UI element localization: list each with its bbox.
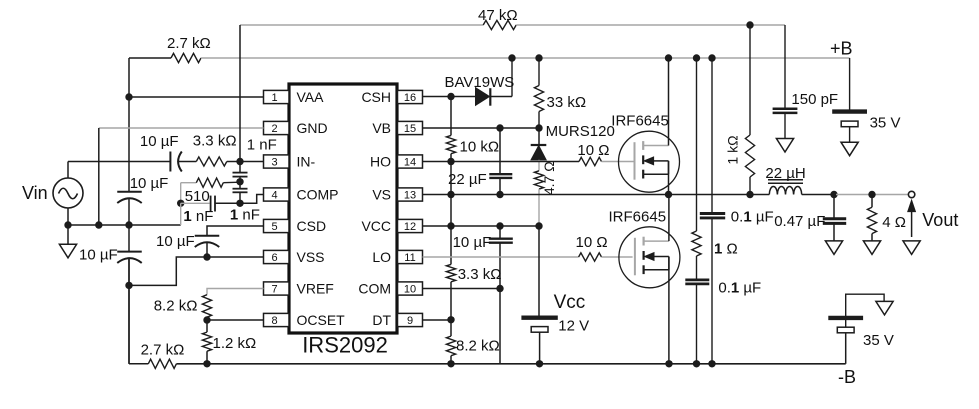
svg-text:11: 11: [404, 252, 415, 264]
svg-text:10 Ω: 10 Ω: [576, 234, 608, 251]
svg-text:35 V: 35 V: [863, 332, 894, 349]
svg-text:3.3 kΩ: 3.3 kΩ: [458, 266, 502, 283]
svg-text:9: 9: [407, 315, 413, 327]
svg-text:CSD: CSD: [297, 218, 327, 234]
svg-text:VCC: VCC: [361, 218, 391, 234]
svg-text:12: 12: [404, 221, 416, 233]
svg-text:IN-: IN-: [297, 154, 316, 170]
svg-text:4.7 Ω: 4.7 Ω: [541, 161, 557, 195]
svg-text:3.3 kΩ: 3.3 kΩ: [193, 132, 237, 149]
svg-text:7: 7: [271, 284, 277, 296]
svg-text:MURS120: MURS120: [546, 123, 615, 140]
svg-text:510: 510: [185, 188, 210, 205]
svg-text:8.2 kΩ: 8.2 kΩ: [456, 338, 500, 355]
svg-text:47 kΩ: 47 kΩ: [478, 7, 518, 24]
svg-text:6: 6: [271, 252, 277, 264]
svg-text:OCSET: OCSET: [297, 312, 346, 328]
svg-text:5: 5: [271, 221, 277, 233]
svg-text:10 µF: 10 µF: [156, 233, 195, 250]
svg-text:14: 14: [404, 157, 416, 169]
svg-text:4: 4: [271, 190, 277, 202]
svg-text:DT: DT: [372, 312, 391, 328]
svg-text:1 nF: 1 nF: [230, 206, 260, 223]
svg-text:VREF: VREF: [297, 281, 334, 297]
svg-text:12 V: 12 V: [558, 317, 589, 334]
svg-text:1 kΩ: 1 kΩ: [724, 135, 740, 164]
svg-text:22 µH: 22 µH: [765, 165, 805, 182]
svg-text:8: 8: [271, 315, 277, 327]
svg-text:2.7 kΩ: 2.7 kΩ: [141, 342, 185, 359]
svg-text:COM: COM: [358, 281, 391, 297]
svg-text:1 nF: 1 nF: [183, 208, 213, 225]
svg-text:10 µF: 10 µF: [130, 175, 169, 192]
svg-text:VB: VB: [372, 120, 391, 136]
svg-text:IRF6645: IRF6645: [609, 209, 667, 226]
svg-text:LO: LO: [372, 249, 391, 265]
svg-text:10 µF: 10 µF: [453, 234, 492, 251]
svg-text:150 pF: 150 pF: [791, 91, 838, 108]
svg-text:Vout: Vout: [922, 210, 958, 230]
svg-text:HO: HO: [370, 154, 391, 170]
svg-text:0.1 µF: 0.1 µF: [731, 209, 774, 226]
svg-text:2: 2: [271, 123, 277, 135]
svg-text:10: 10: [404, 284, 416, 296]
svg-text:10 µF: 10 µF: [79, 247, 118, 264]
svg-text:IRS2092: IRS2092: [302, 333, 388, 358]
svg-text:COMP: COMP: [297, 187, 339, 203]
svg-text:4 Ω: 4 Ω: [882, 214, 906, 231]
svg-text:GND: GND: [297, 120, 328, 136]
svg-text:8.2 kΩ: 8.2 kΩ: [154, 297, 198, 314]
svg-text:Vcc: Vcc: [554, 292, 586, 313]
svg-text:+B: +B: [830, 39, 853, 59]
svg-text:BAV19WS: BAV19WS: [445, 74, 515, 91]
svg-text:0.1 µF: 0.1 µF: [718, 280, 761, 297]
svg-text:VSS: VSS: [297, 249, 325, 265]
svg-text:10 Ω: 10 Ω: [577, 142, 609, 159]
svg-text:3: 3: [271, 157, 277, 169]
svg-text:VAA: VAA: [297, 89, 325, 105]
svg-text:IRF6645: IRF6645: [611, 113, 669, 130]
svg-text:2.7 kΩ: 2.7 kΩ: [167, 35, 211, 52]
svg-text:10 kΩ: 10 kΩ: [460, 138, 500, 155]
svg-text:22 µF: 22 µF: [448, 171, 487, 188]
svg-text:33 kΩ: 33 kΩ: [547, 94, 587, 111]
svg-text:VS: VS: [372, 187, 391, 203]
svg-text:35 V: 35 V: [870, 115, 901, 132]
svg-text:0.47 µF: 0.47 µF: [774, 213, 825, 230]
svg-text:1 nF: 1 nF: [247, 136, 277, 153]
svg-text:Vin: Vin: [22, 183, 48, 203]
svg-text:16: 16: [404, 92, 416, 104]
svg-text:1 Ω: 1 Ω: [714, 241, 738, 258]
svg-text:13: 13: [404, 190, 416, 202]
svg-text:15: 15: [404, 123, 416, 135]
svg-text:CSH: CSH: [361, 89, 391, 105]
svg-text:-B: -B: [838, 367, 856, 387]
svg-text:1: 1: [271, 92, 277, 104]
svg-text:1.2 kΩ: 1.2 kΩ: [213, 335, 257, 352]
svg-text:10 µF: 10 µF: [140, 133, 179, 150]
